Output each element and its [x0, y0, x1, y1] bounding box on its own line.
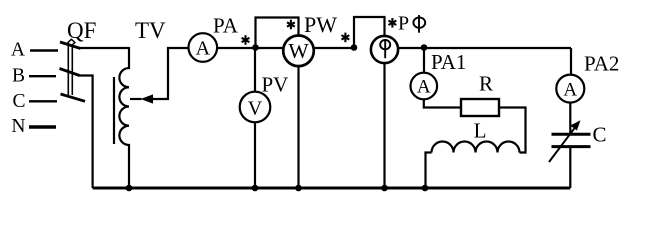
inductor L	[432, 119, 520, 153]
svg-text:PA2: PA2	[584, 52, 619, 76]
asterisk (phase meter current coil)	[342, 33, 350, 43]
terminal C	[12, 91, 57, 112]
wire right side down to PA2	[570, 48, 572, 75]
wire phase meter to right corner	[398, 47, 571, 49]
autotransformer TV	[114, 18, 166, 188]
terminal A	[11, 40, 58, 61]
bottom bus wire	[93, 187, 571, 190]
svg-text:PV: PV	[262, 73, 289, 97]
svg-text:PW: PW	[304, 12, 337, 37]
wire PA2 to capacitor	[569, 103, 571, 133]
ammeter PA	[189, 14, 239, 62]
svg-text:A: A	[196, 38, 211, 60]
terminal N	[11, 116, 56, 137]
node junction at PV branch	[252, 44, 259, 51]
wire inductor to bottom bus	[426, 153, 432, 189]
terminal B	[12, 66, 56, 87]
node load branch at bottom bus	[422, 185, 429, 192]
node P-phi at bottom bus	[381, 185, 388, 192]
svg-text:L: L	[474, 119, 487, 143]
capacitor C (variable)	[549, 120, 607, 162]
wire resistor to inductor	[499, 108, 526, 153]
svg-text:TV: TV	[135, 18, 166, 43]
wire PA to node	[217, 47, 256, 49]
wire phase B down to bottom bus	[78, 76, 93, 189]
svg-text:V: V	[248, 98, 263, 120]
wire node to wattmeter	[256, 47, 284, 49]
svg-text:C: C	[12, 91, 25, 112]
svg-text:B: B	[12, 66, 25, 87]
tap arrow (variac wiper)	[130, 48, 188, 104]
svg-text:A: A	[11, 40, 25, 61]
node transformer at bottom bus	[126, 185, 133, 192]
svg-text:R: R	[479, 72, 493, 96]
resistor R	[461, 72, 499, 117]
node PV at bottom bus	[252, 185, 259, 192]
breaker QF	[60, 18, 97, 101]
node junction at phase meter	[351, 44, 358, 51]
svg-text:W: W	[288, 39, 309, 63]
voltmeter PV	[240, 48, 289, 188]
ammeter PA2	[556, 52, 619, 103]
node PW at bottom bus	[295, 185, 302, 192]
wattmeter PW	[256, 12, 338, 188]
wire wattmeter to node	[314, 47, 355, 49]
wire capacitor to bottom bus	[569, 148, 571, 188]
svg-text:N: N	[11, 116, 25, 137]
node junction at load branch	[421, 44, 428, 51]
svg-text:C: C	[593, 123, 607, 147]
svg-text:A: A	[563, 79, 577, 100]
wire phase A to transformer	[79, 47, 129, 49]
asterisk (wattmeter current coil)	[242, 35, 250, 45]
svg-text:PA1: PA1	[431, 50, 466, 74]
svg-text:P: P	[398, 12, 409, 34]
svg-text:A: A	[417, 77, 431, 98]
wire PA1 to resistor	[424, 99, 461, 107]
svg-text:PA: PA	[213, 14, 239, 38]
ammeter PA1	[411, 48, 467, 99]
phase meter P-phi	[354, 12, 425, 188]
